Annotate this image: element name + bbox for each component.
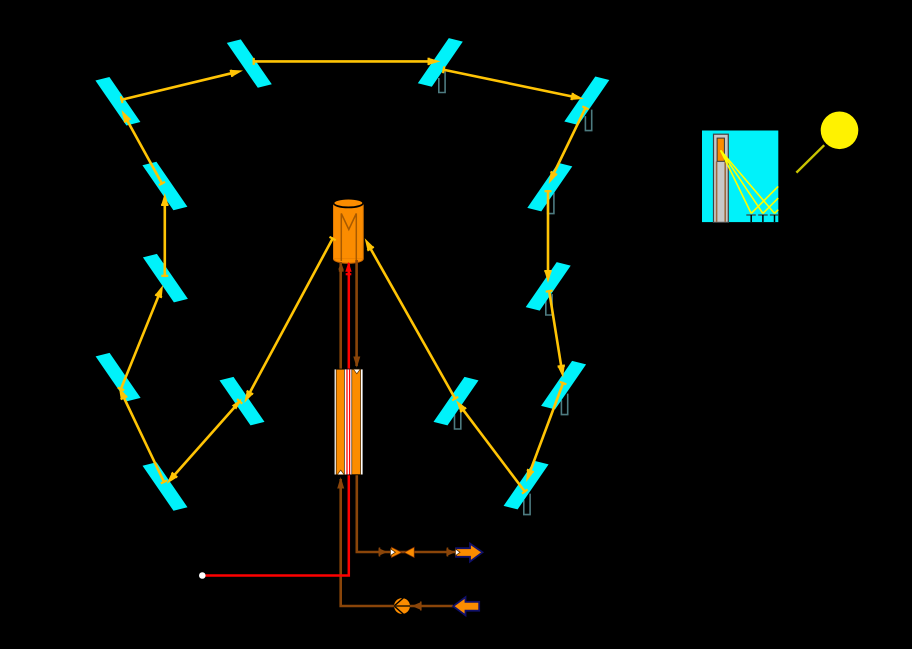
heliostat mirror L (bottom-right) — [504, 461, 549, 510]
light chain: C to D — [443, 66, 584, 100]
cold pipe riser (left brown, receiver to HX top) — [339, 262, 342, 369]
heliostat mirror J (inner left) — [220, 377, 265, 426]
feedwater line (red, below HX to drum dot) — [206, 475, 349, 575]
arrow up into HX bottom (left brown) — [337, 477, 344, 489]
inset: tower — [714, 134, 729, 222]
steam line (red, HX to receiver) — [348, 263, 351, 369]
heliostat stand under mirror M — [561, 394, 567, 415]
heliostat mirror F (right middle) — [526, 262, 571, 311]
inset: heliostat 3 — [770, 215, 778, 222]
heliostat stand under mirror N — [455, 408, 461, 429]
steam outlet block arrow (orange, navy outline) — [456, 544, 483, 562]
light chain: I to H — [118, 285, 163, 390]
feed inlet block arrow (orange, navy outline, pointing left) — [453, 597, 479, 615]
arrow on valve line (brown solid) — [379, 548, 388, 557]
light chain: receiver to J — [244, 237, 336, 403]
heliostat mirror M (right lower) — [541, 361, 586, 410]
open white arrowhead before valve — [390, 549, 395, 556]
heliostat mirror N (inner right) — [434, 377, 479, 426]
open white arrowhead at outlet arrow — [455, 549, 460, 556]
heliostat mirror A (top-left) — [95, 77, 140, 126]
heliostat mirror C (top centre-right) — [418, 38, 463, 87]
valve (two orange triangles) — [391, 547, 414, 557]
light chain: A to B — [121, 70, 244, 103]
heliostat mirror H (left middle) — [143, 254, 188, 303]
light chain: L to N — [456, 400, 528, 493]
receiver internal tube path (M shape) — [341, 214, 356, 262]
receiver top ellipse — [334, 199, 364, 208]
heliostat stand under mirror C — [439, 72, 445, 93]
sun ray toward inset — [796, 145, 824, 172]
heliostat stand under mirror F — [546, 294, 552, 315]
heat exchanger left orange tube — [336, 369, 344, 474]
central receiver cylinder body — [334, 203, 364, 263]
small return arrow at J — [232, 399, 242, 410]
arrow up into receiver (left brown) — [338, 262, 343, 270]
light chain: G to A — [122, 110, 166, 185]
heat exchanger central steam tubes (double red) — [347, 369, 350, 474]
arrow on valve line after valve (brown solid) — [446, 548, 455, 557]
light chain: F to M — [546, 290, 565, 378]
hot pipe downcomer (right brown, receiver to HX top) — [355, 260, 358, 366]
light chain: D to E — [549, 106, 589, 184]
heliostat mirror D (top-right) — [564, 77, 609, 126]
inset: heliostat 2 — [758, 215, 768, 222]
inset: receiver on tower — [717, 138, 724, 161]
pump (orange circle with chords) — [394, 598, 410, 615]
inset: heliostat 1 — [746, 215, 756, 222]
inset: principle diagram background — [702, 131, 778, 223]
heliostat mirror I (left lower) — [96, 353, 141, 402]
heat exchanger right orange tube — [352, 369, 361, 474]
heliostat mirror B (top) — [227, 39, 272, 87]
open white arrowhead at HX bottom (cold inlet) — [337, 470, 344, 475]
light chain: H to G — [161, 193, 168, 277]
heliostat stand under mirror D — [585, 110, 591, 131]
light chain: K to I — [119, 387, 167, 483]
cold pipe below HX (left brown down to pump line) — [341, 479, 453, 606]
heliostat mirror E (right upper) — [527, 163, 572, 212]
hot pipe below HX to valve line (right brown) — [357, 475, 456, 552]
inset: reflected rays to receiver — [721, 150, 775, 213]
inset: riser pipes in tower — [717, 162, 726, 222]
heliostat mirror K (bottom-left) — [143, 462, 188, 511]
sun — [821, 112, 859, 150]
heliostat stand under mirror E — [548, 193, 554, 214]
arrow up into receiver (red) — [345, 262, 351, 275]
arrow on pump line (brown, pointing left) — [412, 602, 421, 611]
light chain: M to L — [526, 382, 566, 482]
light chain: B to C — [253, 58, 441, 65]
heliostat stand under mirror L — [524, 494, 530, 515]
light chain: J to K — [167, 399, 243, 484]
arrow down into HX (right brown) — [353, 357, 360, 368]
light chain: N to receiver — [365, 238, 459, 400]
light chain: E to F — [544, 190, 551, 283]
inset: incoming sun rays — [751, 186, 778, 213]
feedwater source dot — [199, 572, 206, 579]
heat exchanger body — [334, 369, 364, 476]
heliostat mirror G (left upper) — [142, 162, 187, 211]
open white arrowhead at HX top (hot inlet) — [353, 369, 360, 374]
